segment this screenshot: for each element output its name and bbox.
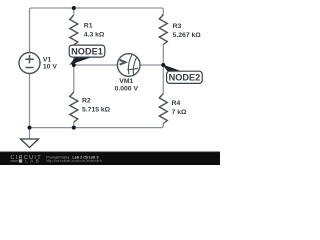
voltage source V1 xyxy=(19,53,40,74)
svg-text:10 V: 10 V xyxy=(43,64,57,71)
footer logo LAB xyxy=(10,160,17,162)
resistor R2 xyxy=(70,92,78,122)
node NODE2 box xyxy=(167,71,203,83)
wire R2 bottom stub xyxy=(73,122,75,128)
junction dot node B xyxy=(161,63,165,67)
wire node A to R2 xyxy=(73,65,75,92)
wire top with left corner xyxy=(30,8,164,52)
wire node A to voltmeter xyxy=(74,64,118,66)
svg-text:7 kΩ: 7 kΩ xyxy=(172,109,187,116)
junction dot top R1 xyxy=(72,6,76,10)
svg-text:http://circuitlab.com/c/e2e9eb: http://circuitlab.com/c/e2e9ebdch xyxy=(46,159,102,163)
svg-text:V1: V1 xyxy=(43,56,52,63)
svg-text:R2: R2 xyxy=(82,98,91,105)
wire bottom with right corner xyxy=(30,124,164,128)
svg-text:4.3 kΩ: 4.3 kΩ xyxy=(84,32,105,39)
resistor R3 xyxy=(159,15,167,45)
wire R1 to node A xyxy=(73,45,75,65)
svg-text:R3: R3 xyxy=(173,23,182,30)
junction dot bottom left xyxy=(28,126,32,130)
svg-text:NODE2: NODE2 xyxy=(169,73,201,83)
junction dot node A xyxy=(72,63,76,67)
svg-text:NODE1: NODE1 xyxy=(71,46,103,56)
svg-text:5.715 kΩ: 5.715 kΩ xyxy=(82,107,111,114)
svg-text:R4: R4 xyxy=(172,100,181,107)
wire voltmeter to node B xyxy=(140,64,163,66)
wire R1 top stub xyxy=(73,8,75,15)
junction dot bottom R2 xyxy=(72,126,76,130)
voltmeter VM1 xyxy=(117,54,140,77)
node NODE1 flag tail xyxy=(70,57,92,65)
wire left lower xyxy=(29,74,31,128)
svg-text:R1: R1 xyxy=(84,23,93,30)
svg-text:5.267 kΩ: 5.267 kΩ xyxy=(173,32,202,39)
node NODE1 box xyxy=(69,45,105,57)
resistor R1 xyxy=(70,15,78,45)
wire right branch middle xyxy=(162,45,164,94)
node NODE2 flag tail xyxy=(162,64,183,72)
svg-text:VM1: VM1 xyxy=(119,78,133,85)
ground stub wire xyxy=(29,128,31,139)
svg-text:0.000 V: 0.000 V xyxy=(115,86,139,93)
svg-text:LAB: LAB xyxy=(25,159,41,165)
resistor R4 xyxy=(159,94,167,124)
ground xyxy=(21,139,39,148)
footer bar xyxy=(0,152,220,166)
